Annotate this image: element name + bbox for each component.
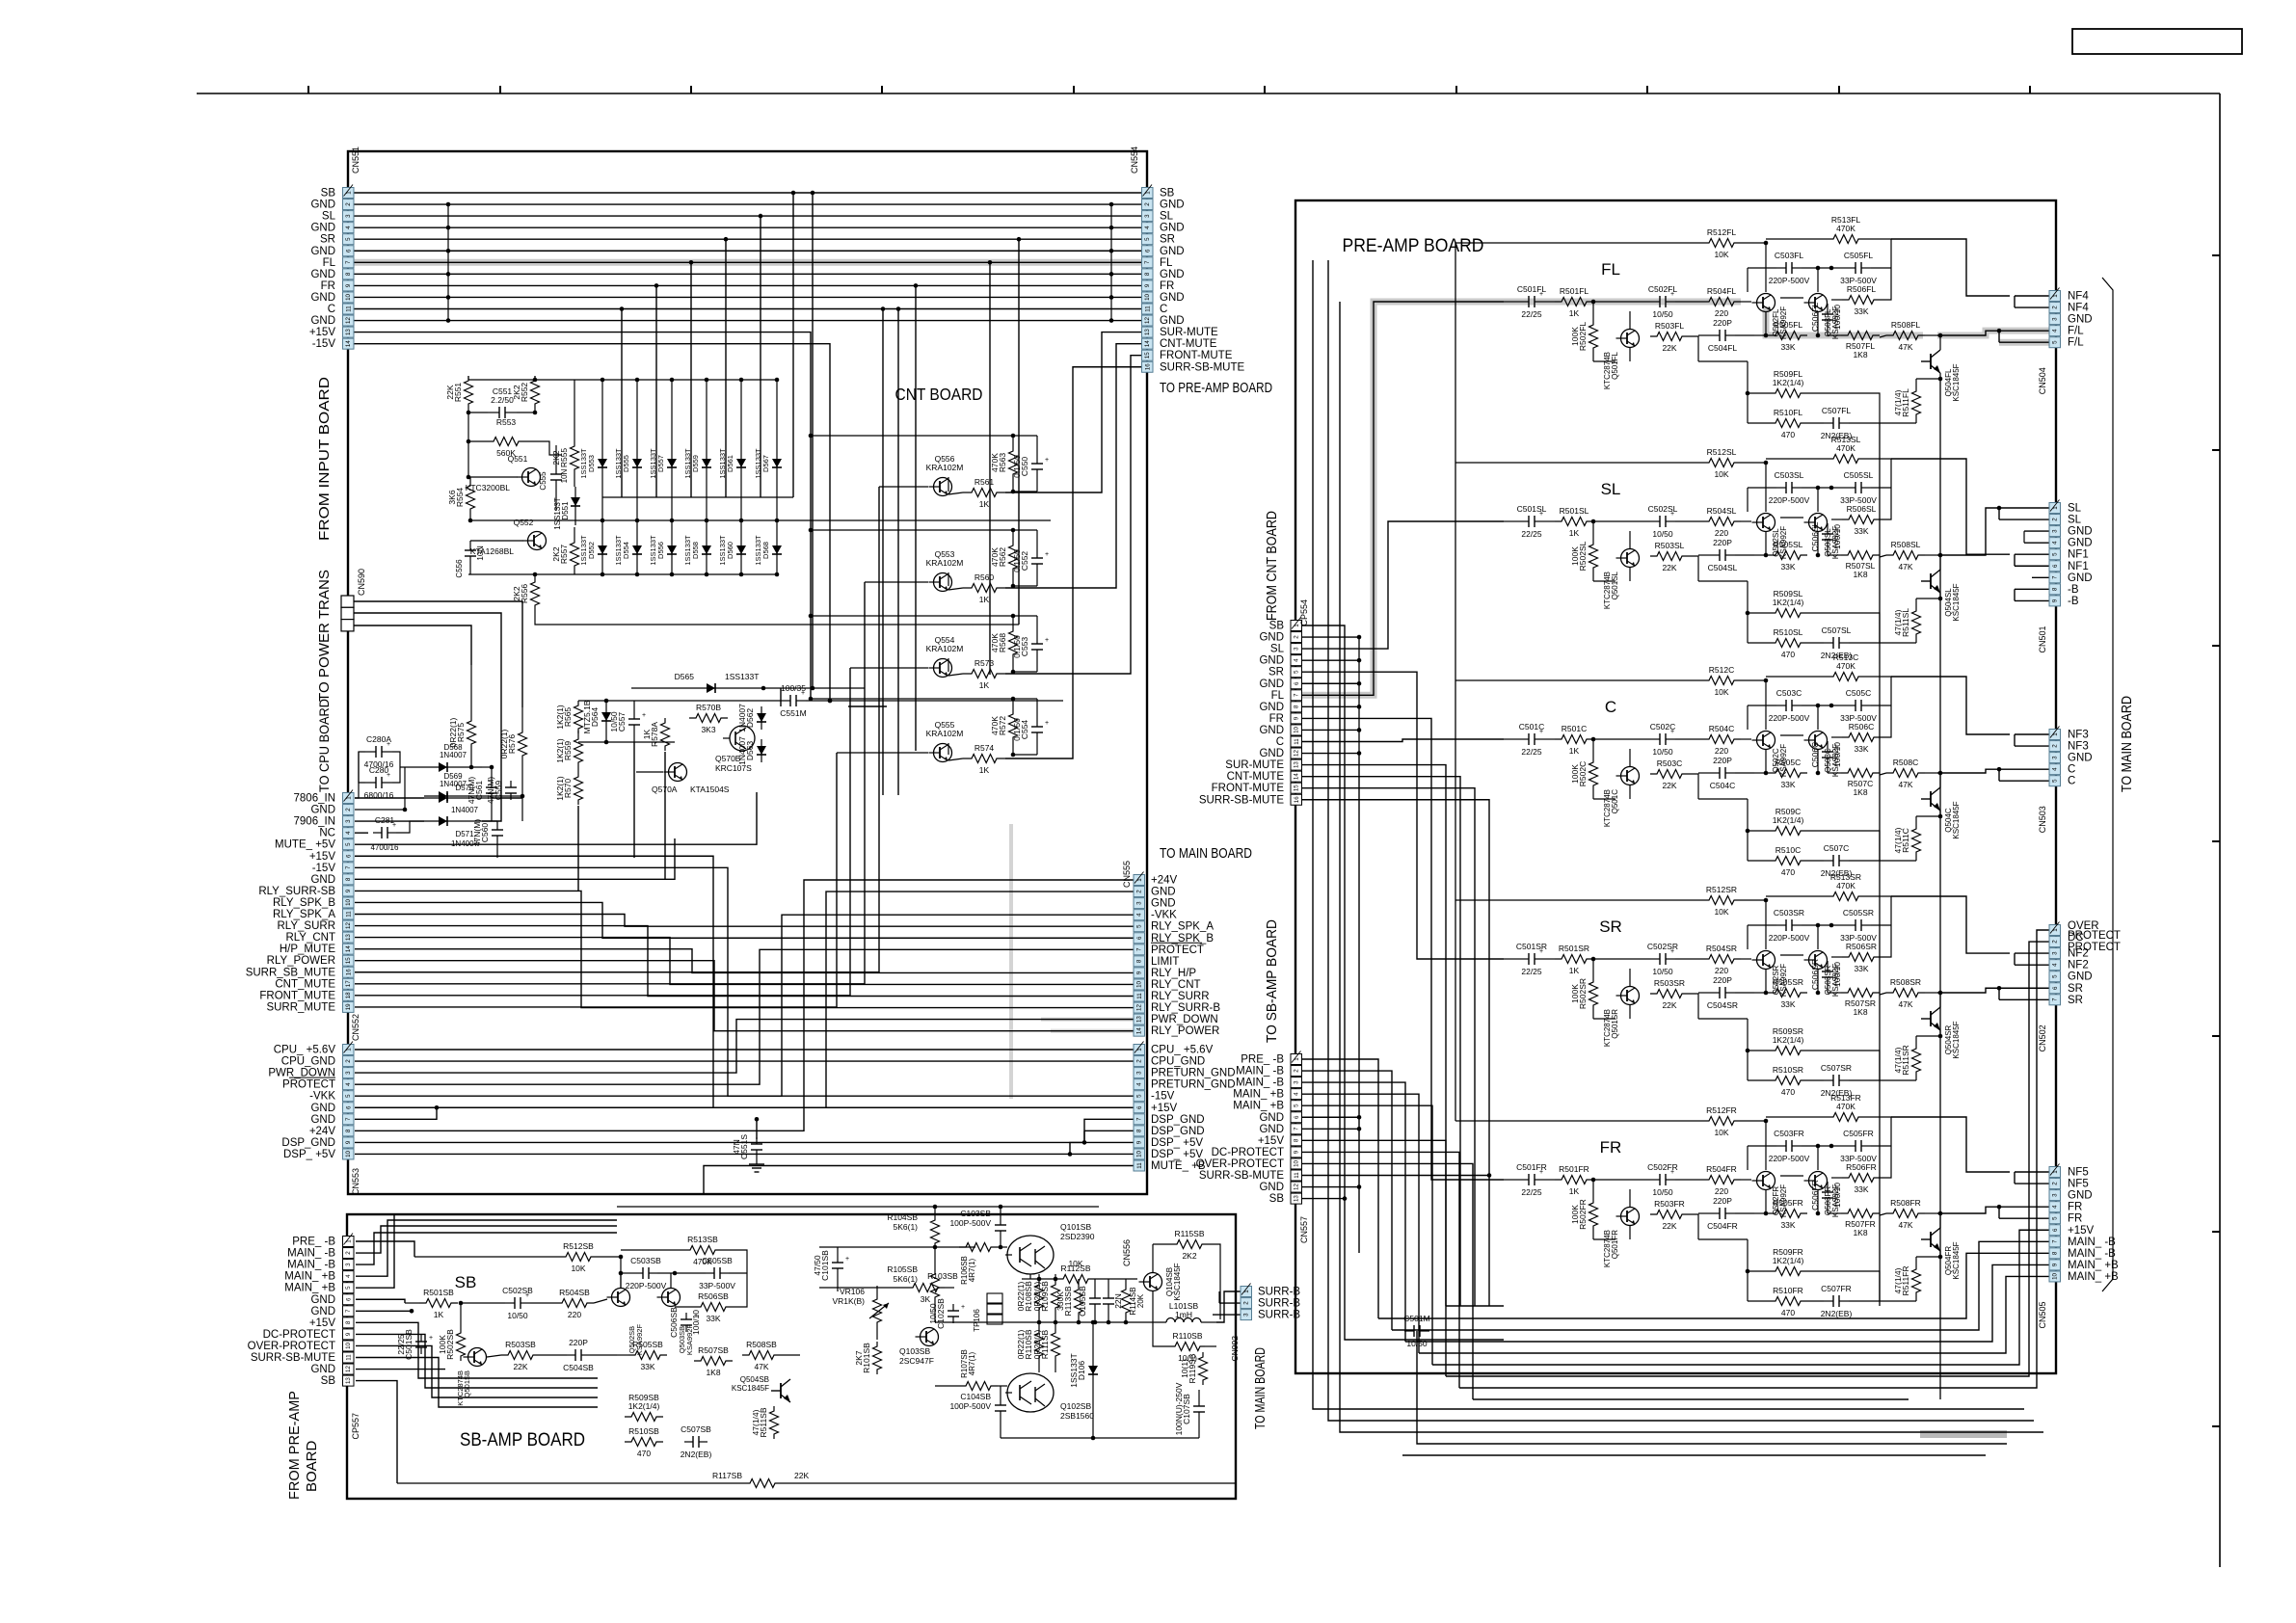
svg-text:470: 470 [637, 1449, 651, 1458]
svg-text:15: 15 [345, 957, 352, 964]
transistor Q501SL [1603, 549, 1640, 610]
capacitor C507SB [681, 1424, 712, 1459]
capacitor C554 [811, 697, 1049, 758]
svg-text:2.2/50: 2.2/50 [491, 395, 514, 405]
svg-text:C501FL: C501FL [1517, 284, 1547, 294]
capacitor C502FR [1593, 1162, 1678, 1197]
svg-text:33K: 33K [1780, 780, 1795, 789]
svg-text:-VKK: -VKK [1151, 910, 1177, 921]
svg-text:47N: 47N [732, 1139, 741, 1155]
svg-text:470: 470 [1781, 1308, 1795, 1317]
gray highlight bar bottom right [1920, 1430, 2007, 1438]
svg-text:R510SR: R510SR [1773, 1065, 1803, 1075]
capacitor C501SB [396, 1303, 433, 1360]
transistor Q504FL [1921, 333, 1961, 402]
svg-text:100K: 100K [438, 1335, 447, 1354]
svg-text:47K: 47K [1898, 562, 1912, 572]
svg-text:GND: GND [2068, 971, 2093, 983]
svg-text:9: 9 [345, 889, 352, 892]
svg-text:C: C [2068, 764, 2075, 776]
connector CN555 [1122, 861, 1145, 1036]
resistor R110SBv [1016, 1322, 1044, 1372]
svg-text:33K: 33K [1780, 1220, 1795, 1230]
svg-text:1K8: 1K8 [1853, 1228, 1867, 1237]
svg-text:MAIN_ -B: MAIN_ -B [287, 1260, 335, 1271]
svg-text:C104SB: C104SB [960, 1392, 991, 1401]
svg-text:SR: SR [320, 234, 335, 246]
svg-text:6: 6 [2052, 1228, 2059, 1232]
svg-text:C: C [328, 304, 335, 315]
resistor R511FR [1880, 1251, 1940, 1301]
svg-text:11: 11 [345, 911, 352, 918]
preamp power rail verticals [1313, 260, 2043, 1432]
svg-text:CN992: CN992 [1230, 1336, 1240, 1362]
svg-text:47(1/4): 47(1/4) [1893, 389, 1903, 415]
svg-text:+24V: +24V [309, 1126, 336, 1137]
svg-text:4: 4 [345, 1274, 352, 1278]
svg-text:MAIN_ -B: MAIN_ -B [1236, 1066, 1284, 1078]
svg-text:KTC2874B: KTC2874B [1603, 1230, 1612, 1267]
svg-text:16: 16 [1144, 363, 1151, 370]
preamp bottom bundle horizontals [1402, 1180, 2007, 1455]
resistor R508SB [742, 1340, 800, 1371]
transistor Q555 [837, 720, 963, 762]
svg-text:47(1/4): 47(1/4) [1893, 827, 1903, 853]
svg-text:FR: FR [1269, 713, 1284, 725]
resistor R565 [555, 701, 583, 733]
resistor R510FR [1746, 1269, 1807, 1317]
svg-text:SR: SR [1599, 918, 1622, 936]
svg-text:NF2: NF2 [2068, 948, 2089, 960]
resistor R105SB [887, 1264, 939, 1322]
svg-text:10/50: 10/50 [1652, 309, 1673, 319]
svg-text:LIMIT: LIMIT [1151, 956, 1179, 968]
svg-text:220P: 220P [1713, 538, 1732, 547]
svg-text:R505C: R505C [1775, 758, 1801, 767]
SB-AMP board outline [347, 1214, 1236, 1499]
svg-text:5: 5 [2052, 974, 2059, 978]
mute signal wires to CN554 [1005, 333, 1141, 758]
svg-text:TO CPU BOARD: TO CPU BOARD [317, 699, 332, 792]
svg-text:R503C: R503C [1657, 758, 1682, 768]
svg-text:+: + [429, 1335, 433, 1342]
CN556 pin labels [1151, 1045, 1236, 1173]
svg-text:R103SB: R103SB [927, 1271, 958, 1281]
svg-text:7: 7 [345, 260, 352, 264]
CN501 pin labels [2068, 503, 2093, 607]
svg-text:+15V: +15V [309, 1317, 336, 1329]
svg-text:2N2(EB): 2N2(EB) [681, 1450, 712, 1459]
PRE-AMP board outline [1295, 200, 2056, 1373]
svg-text:13: 13 [345, 934, 352, 941]
svg-text:C555: C555 [539, 471, 547, 491]
capacitor C106SBn [1103, 1279, 1123, 1322]
svg-text:5: 5 [2052, 1216, 2059, 1220]
svg-text:D568: D568 [761, 542, 770, 559]
svg-text:GND: GND [2068, 753, 2093, 764]
resistor R502FR [1570, 1178, 1598, 1239]
svg-text:8: 8 [2052, 587, 2059, 591]
svg-text:D557: D557 [656, 455, 665, 472]
svg-text:CPU_GND: CPU_GND [1151, 1056, 1205, 1068]
svg-text:GND: GND [310, 874, 335, 886]
svg-text:D552: D552 [587, 542, 596, 559]
svg-text:33K: 33K [1854, 964, 1868, 973]
svg-text:220P: 220P [1713, 1196, 1732, 1206]
svg-text:4: 4 [1136, 913, 1143, 917]
svg-text:1N4007: 1N4007 [451, 806, 479, 814]
resistor R505SR [1754, 977, 1807, 1009]
svg-text:4: 4 [2052, 963, 2059, 967]
resistor R110SB [1153, 1291, 1216, 1363]
connector CN503 [2038, 727, 2061, 834]
svg-text:MAIN_ -B: MAIN_ -B [2068, 1248, 2116, 1260]
svg-text:GND: GND [1259, 748, 1284, 759]
svg-text:R507SB: R507SB [698, 1345, 729, 1355]
transistor Q503SR [1780, 951, 1840, 998]
svg-text:100/10: 100/10 [691, 1310, 701, 1335]
svg-text:10/50: 10/50 [1406, 1339, 1428, 1348]
svg-text:100K: 100K [1570, 984, 1580, 1003]
resistor R560 [948, 572, 1005, 604]
svg-text:6: 6 [1136, 1105, 1143, 1109]
svg-text:10(1): 10(1) [1180, 1359, 1189, 1378]
svg-text:220P-500V: 220P-500V [1769, 713, 1810, 723]
svg-text:R505SR: R505SR [1773, 977, 1803, 987]
connector CN502 [2038, 922, 2061, 1052]
svg-text:RLY_SURR: RLY_SURR [1151, 991, 1210, 1002]
svg-text:FROM PRE-AMP: FROM PRE-AMP [286, 1391, 303, 1500]
svg-text:0R22(1): 0R22(1) [1016, 1281, 1026, 1311]
svg-text:C: C [1276, 736, 1284, 748]
svg-text:14: 14 [345, 945, 352, 952]
capacitor C507C [1807, 831, 1880, 878]
transistor Q556 [879, 454, 963, 496]
svg-text:C504C: C504C [1710, 781, 1735, 790]
svg-text:2K2: 2K2 [551, 546, 561, 561]
svg-text:1SS133T: 1SS133T [614, 535, 623, 566]
svg-text:15: 15 [1294, 785, 1300, 791]
svg-text:12: 12 [1136, 1004, 1143, 1011]
svg-text:11: 11 [1136, 993, 1143, 999]
capacitor C505FR [1829, 1129, 1891, 1163]
diode D569 [400, 772, 482, 801]
svg-text:PWR_DOWN: PWR_DOWN [1151, 1014, 1218, 1025]
svg-text:33K: 33K [640, 1362, 654, 1371]
resistor R509FR [1748, 1239, 1836, 1276]
diode D570 [424, 784, 492, 814]
svg-text:0.1/50: 0.1/50 [1012, 455, 1022, 478]
svg-text:22/25: 22/25 [396, 1334, 406, 1355]
svg-text:+24V: +24V [1151, 875, 1178, 887]
svg-text:11: 11 [1294, 738, 1300, 745]
svg-text:GND: GND [310, 1294, 335, 1306]
CN590 wires [354, 601, 522, 821]
svg-text:CNT-MUTE: CNT-MUTE [1227, 771, 1285, 783]
svg-text:14: 14 [1144, 340, 1151, 347]
transistor Q504SB [732, 1375, 790, 1402]
svg-text:22/25: 22/25 [1521, 967, 1542, 976]
preamp top rail bundle vertical [1455, 243, 1456, 1121]
svg-text:220P-500V: 220P-500V [626, 1281, 667, 1290]
transistor Q504SR [1921, 991, 1961, 1059]
svg-text:CNT BOARD: CNT BOARD [895, 385, 983, 404]
svg-text:220P-500V: 220P-500V [1769, 933, 1810, 943]
svg-text:GND: GND [310, 1103, 335, 1114]
svg-text:100K: 100K [1570, 546, 1580, 566]
capacitor C506SR [1810, 959, 1842, 993]
svg-text:3K6: 3K6 [447, 490, 457, 504]
-B +B distribution verticals [1880, 377, 1942, 1399]
capacitor C503FL [1748, 251, 1831, 292]
svg-text:470: 470 [1781, 1087, 1795, 1097]
resistor R509FL [1748, 361, 1836, 398]
svg-text:6: 6 [345, 1105, 352, 1109]
connector CN504 [2038, 288, 2061, 395]
svg-text:DSP_GND: DSP_GND [1151, 1114, 1205, 1126]
svg-text:5: 5 [2052, 779, 2059, 783]
resistor R111SB [1032, 1322, 1060, 1372]
svg-text:FL: FL [323, 257, 336, 269]
svg-text:1mH: 1mH [1175, 1310, 1192, 1319]
transistor Q501FL [1603, 330, 1640, 390]
svg-text:BOARD: BOARD [304, 1440, 320, 1492]
svg-text:R512C: R512C [1709, 665, 1734, 675]
svg-text:4: 4 [345, 226, 352, 229]
svg-text:9: 9 [1294, 716, 1300, 720]
svg-text:1K: 1K [979, 595, 990, 604]
svg-text:10N: 10N [560, 468, 569, 483]
svg-text:FRONT-MUTE: FRONT-MUTE [1160, 350, 1233, 361]
svg-text:C503SL: C503SL [1775, 470, 1804, 480]
svg-text:C105SB: C105SB [1078, 1286, 1087, 1317]
resistor R512FL [1455, 227, 1768, 292]
svg-text:R503SR: R503SR [1654, 978, 1685, 988]
svg-text:470K: 470K [1836, 443, 1855, 453]
svg-text:MAIN_ +B: MAIN_ +B [1233, 1089, 1284, 1101]
svg-text:1SS133T: 1SS133T [579, 535, 588, 566]
svg-text:R512SR: R512SR [1706, 885, 1737, 894]
svg-text:RLY_H/P: RLY_H/P [1151, 968, 1196, 979]
svg-text:NF3: NF3 [2068, 741, 2089, 753]
svg-text:R508FR: R508FR [1890, 1198, 1921, 1208]
svg-text:3: 3 [345, 1263, 352, 1266]
capacitor C555 [539, 445, 569, 511]
svg-text:SURR-SB-MUTE: SURR-SB-MUTE [1199, 1170, 1284, 1182]
capacitor C505C [1829, 688, 1891, 723]
svg-text:C507SR: C507SR [1821, 1063, 1852, 1073]
resistor R504FL [1675, 286, 1741, 318]
svg-text:NF1: NF1 [2068, 549, 2089, 561]
svg-text:D555: D555 [622, 455, 630, 472]
control mesh wires left to right [355, 880, 1134, 1157]
resistor R508FR [1880, 1198, 1937, 1230]
svg-text:GND: GND [1160, 223, 1185, 234]
svg-text:470: 470 [1781, 650, 1795, 659]
svg-text:CPU_ +5.6V: CPU_ +5.6V [274, 1045, 336, 1056]
resistor R505C [1754, 758, 1807, 789]
svg-text:12: 12 [1144, 317, 1151, 324]
transistor Q501SR [1603, 987, 1640, 1048]
svg-text:1SS133T: 1SS133T [683, 535, 692, 566]
resistor R512C [1455, 665, 1768, 730]
resistor R507FL [1828, 332, 1880, 360]
svg-text:C501SR: C501SR [1516, 942, 1547, 951]
svg-text:GND: GND [1259, 1112, 1284, 1124]
transistor Q502SL [1741, 514, 1788, 560]
svg-text:13: 13 [1294, 761, 1300, 768]
CN555 pin labels [1151, 845, 1252, 1037]
capacitor C281 [355, 815, 424, 852]
svg-text:47(1/4): 47(1/4) [1893, 1047, 1903, 1073]
svg-text:Q501C: Q501C [1611, 789, 1619, 814]
svg-text:47K: 47K [1898, 780, 1912, 789]
transistor Q101SB [1005, 1222, 1095, 1274]
svg-text:SL: SL [322, 211, 336, 223]
transistor Q570B [715, 726, 755, 773]
svg-text:10: 10 [1294, 726, 1300, 732]
svg-text:4700/16: 4700/16 [371, 843, 399, 852]
svg-text:2: 2 [2052, 306, 2059, 309]
svg-text:1K: 1K [979, 499, 990, 509]
svg-text:7: 7 [1294, 1127, 1300, 1131]
svg-text:C103SB: C103SB [960, 1209, 991, 1218]
svg-text:C505FL: C505FL [1844, 251, 1874, 260]
svg-text:1K2(1/4): 1K2(1/4) [1773, 1256, 1804, 1265]
svg-text:3: 3 [1136, 901, 1143, 905]
svg-text:CN504: CN504 [2038, 367, 2047, 394]
svg-text:D559: D559 [691, 455, 700, 472]
svg-text:12: 12 [345, 1366, 352, 1372]
svg-text:9: 9 [2052, 599, 2059, 602]
svg-text:9: 9 [1136, 1140, 1143, 1144]
resistor R508SR [1880, 977, 1937, 1009]
resistor R117SB [397, 1471, 1236, 1488]
svg-text:RLY_SURR-B: RLY_SURR-B [1151, 1002, 1220, 1014]
svg-text:17: 17 [345, 980, 352, 987]
svg-text:FRONT-MUTE: FRONT-MUTE [1212, 783, 1285, 794]
diode D571 [424, 816, 497, 848]
svg-text:5K6(1): 5K6(1) [893, 1274, 918, 1284]
svg-text:1K: 1K [1569, 966, 1580, 975]
svg-text:CNT_MUTE: CNT_MUTE [275, 978, 335, 990]
svg-text:10/50: 10/50 [609, 711, 619, 732]
svg-text:+: + [961, 1304, 965, 1311]
svg-text:220P-500V: 220P-500V [1769, 495, 1810, 505]
svg-text:47(1/4): 47(1/4) [1893, 1267, 1903, 1293]
svg-text:R501SR: R501SR [1559, 944, 1589, 953]
svg-text:CN555: CN555 [1122, 861, 1132, 888]
TO MAIN BOARD bracket [2102, 278, 2135, 1291]
svg-text:0R22(1): 0R22(1) [499, 729, 509, 758]
svg-text:47K: 47K [1898, 342, 1912, 352]
svg-text:7906_IN: 7906_IN [294, 816, 335, 828]
svg-text:MAIN_ +B: MAIN_ +B [284, 1271, 335, 1283]
svg-text:15: 15 [1144, 352, 1151, 359]
svg-text:NF1: NF1 [2068, 561, 2089, 572]
svg-text:CN554: CN554 [1130, 146, 1139, 173]
svg-text:PRE_ -B: PRE_ -B [292, 1237, 335, 1248]
diode D568 [424, 743, 482, 772]
svg-text:5: 5 [1144, 237, 1151, 241]
svg-text:Q501FL: Q501FL [1611, 351, 1619, 379]
svg-text:H/P_MUTE: H/P_MUTE [280, 944, 335, 955]
svg-text:470K: 470K [1836, 224, 1855, 233]
svg-text:10/50: 10/50 [1652, 1187, 1673, 1197]
svg-text:Q552: Q552 [514, 518, 534, 527]
channel C output wires [1891, 677, 2049, 781]
capacitor C504FR [1698, 1196, 1754, 1231]
svg-text:SB-AMP BOARD: SB-AMP BOARD [460, 1430, 585, 1450]
svg-text:PRE-AMP BOARD: PRE-AMP BOARD [1343, 236, 1484, 256]
svg-text:GND: GND [310, 1306, 335, 1317]
resistor R505FR [1754, 1198, 1807, 1230]
resistor R509SB [625, 1393, 663, 1422]
resistor R506C [1831, 705, 1891, 754]
svg-text:10: 10 [345, 898, 352, 905]
capacitor C553 [811, 614, 1049, 675]
svg-text:-15V: -15V [312, 863, 336, 874]
svg-text:PRE_ -B: PRE_ -B [1241, 1054, 1284, 1066]
svg-text:R501FL: R501FL [1560, 286, 1589, 296]
capacitor C560 [472, 819, 503, 858]
svg-text:1K2(1/4): 1K2(1/4) [1773, 598, 1804, 607]
svg-text:MAIN_ -B: MAIN_ -B [1236, 1078, 1284, 1089]
svg-text:0R22(1): 0R22(1) [1032, 1329, 1042, 1359]
svg-text:R504FR: R504FR [1706, 1164, 1737, 1174]
svg-text:GND: GND [310, 315, 335, 327]
svg-text:3: 3 [345, 1071, 352, 1075]
highlighted FL net gray preamp [1302, 302, 2049, 695]
svg-text:KRA102M: KRA102M [926, 729, 964, 738]
svg-text:10: 10 [1136, 980, 1143, 987]
transistor Q501C [1603, 767, 1640, 828]
svg-text:C: C [1160, 304, 1167, 315]
svg-text:R513SB: R513SB [687, 1235, 718, 1244]
resistor R512SL [1455, 447, 1768, 512]
svg-text:CN590: CN590 [357, 569, 366, 596]
capacitor C504SR [1698, 975, 1754, 1010]
svg-text:C: C [1605, 698, 1616, 716]
resistor R509C [1748, 799, 1836, 836]
svg-text:6: 6 [1294, 681, 1300, 685]
resistor R504SR [1675, 944, 1741, 975]
svg-text:4R7(1): 4R7(1) [968, 1351, 976, 1375]
svg-text:2: 2 [1136, 1059, 1143, 1063]
svg-text:0.1/50: 0.1/50 [1012, 635, 1022, 658]
svg-text:Q504SB: Q504SB [740, 1375, 769, 1384]
svg-text:TO MAIN BOARD: TO MAIN BOARD [1252, 1347, 1268, 1429]
NF -B hooks CN501 [2015, 531, 2049, 600]
resistor R106SB [959, 1243, 1007, 1285]
resistor R511FL [1880, 373, 1940, 423]
svg-text:R508SB: R508SB [746, 1340, 777, 1349]
svg-text:3: 3 [2052, 756, 2059, 759]
connector CN590 [341, 569, 366, 631]
svg-text:C501C: C501C [1519, 722, 1544, 732]
svg-text:CNT-MUTE: CNT-MUTE [1160, 338, 1217, 350]
svg-text:DSP_ +5V: DSP_ +5V [283, 1149, 335, 1160]
capacitor C551S [732, 1134, 764, 1172]
svg-text:CN556: CN556 [1122, 1239, 1132, 1266]
svg-text:22K: 22K [445, 385, 455, 399]
diode D564 [582, 700, 611, 742]
svg-text:CPU_ +5.6V: CPU_ +5.6V [1151, 1045, 1214, 1056]
svg-text:R561: R561 [974, 477, 995, 487]
svg-text:D567: D567 [761, 455, 770, 472]
svg-text:100P-500V: 100P-500V [949, 1218, 991, 1228]
svg-text:3: 3 [2052, 951, 2059, 955]
